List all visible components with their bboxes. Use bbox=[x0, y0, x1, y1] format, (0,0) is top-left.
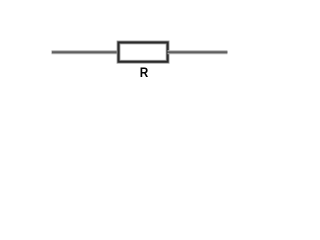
wire bbox=[52, 50, 118, 54]
svg-text:R: R bbox=[140, 65, 149, 80]
resistor R bbox=[119, 42, 168, 79]
wire bbox=[168, 50, 228, 54]
